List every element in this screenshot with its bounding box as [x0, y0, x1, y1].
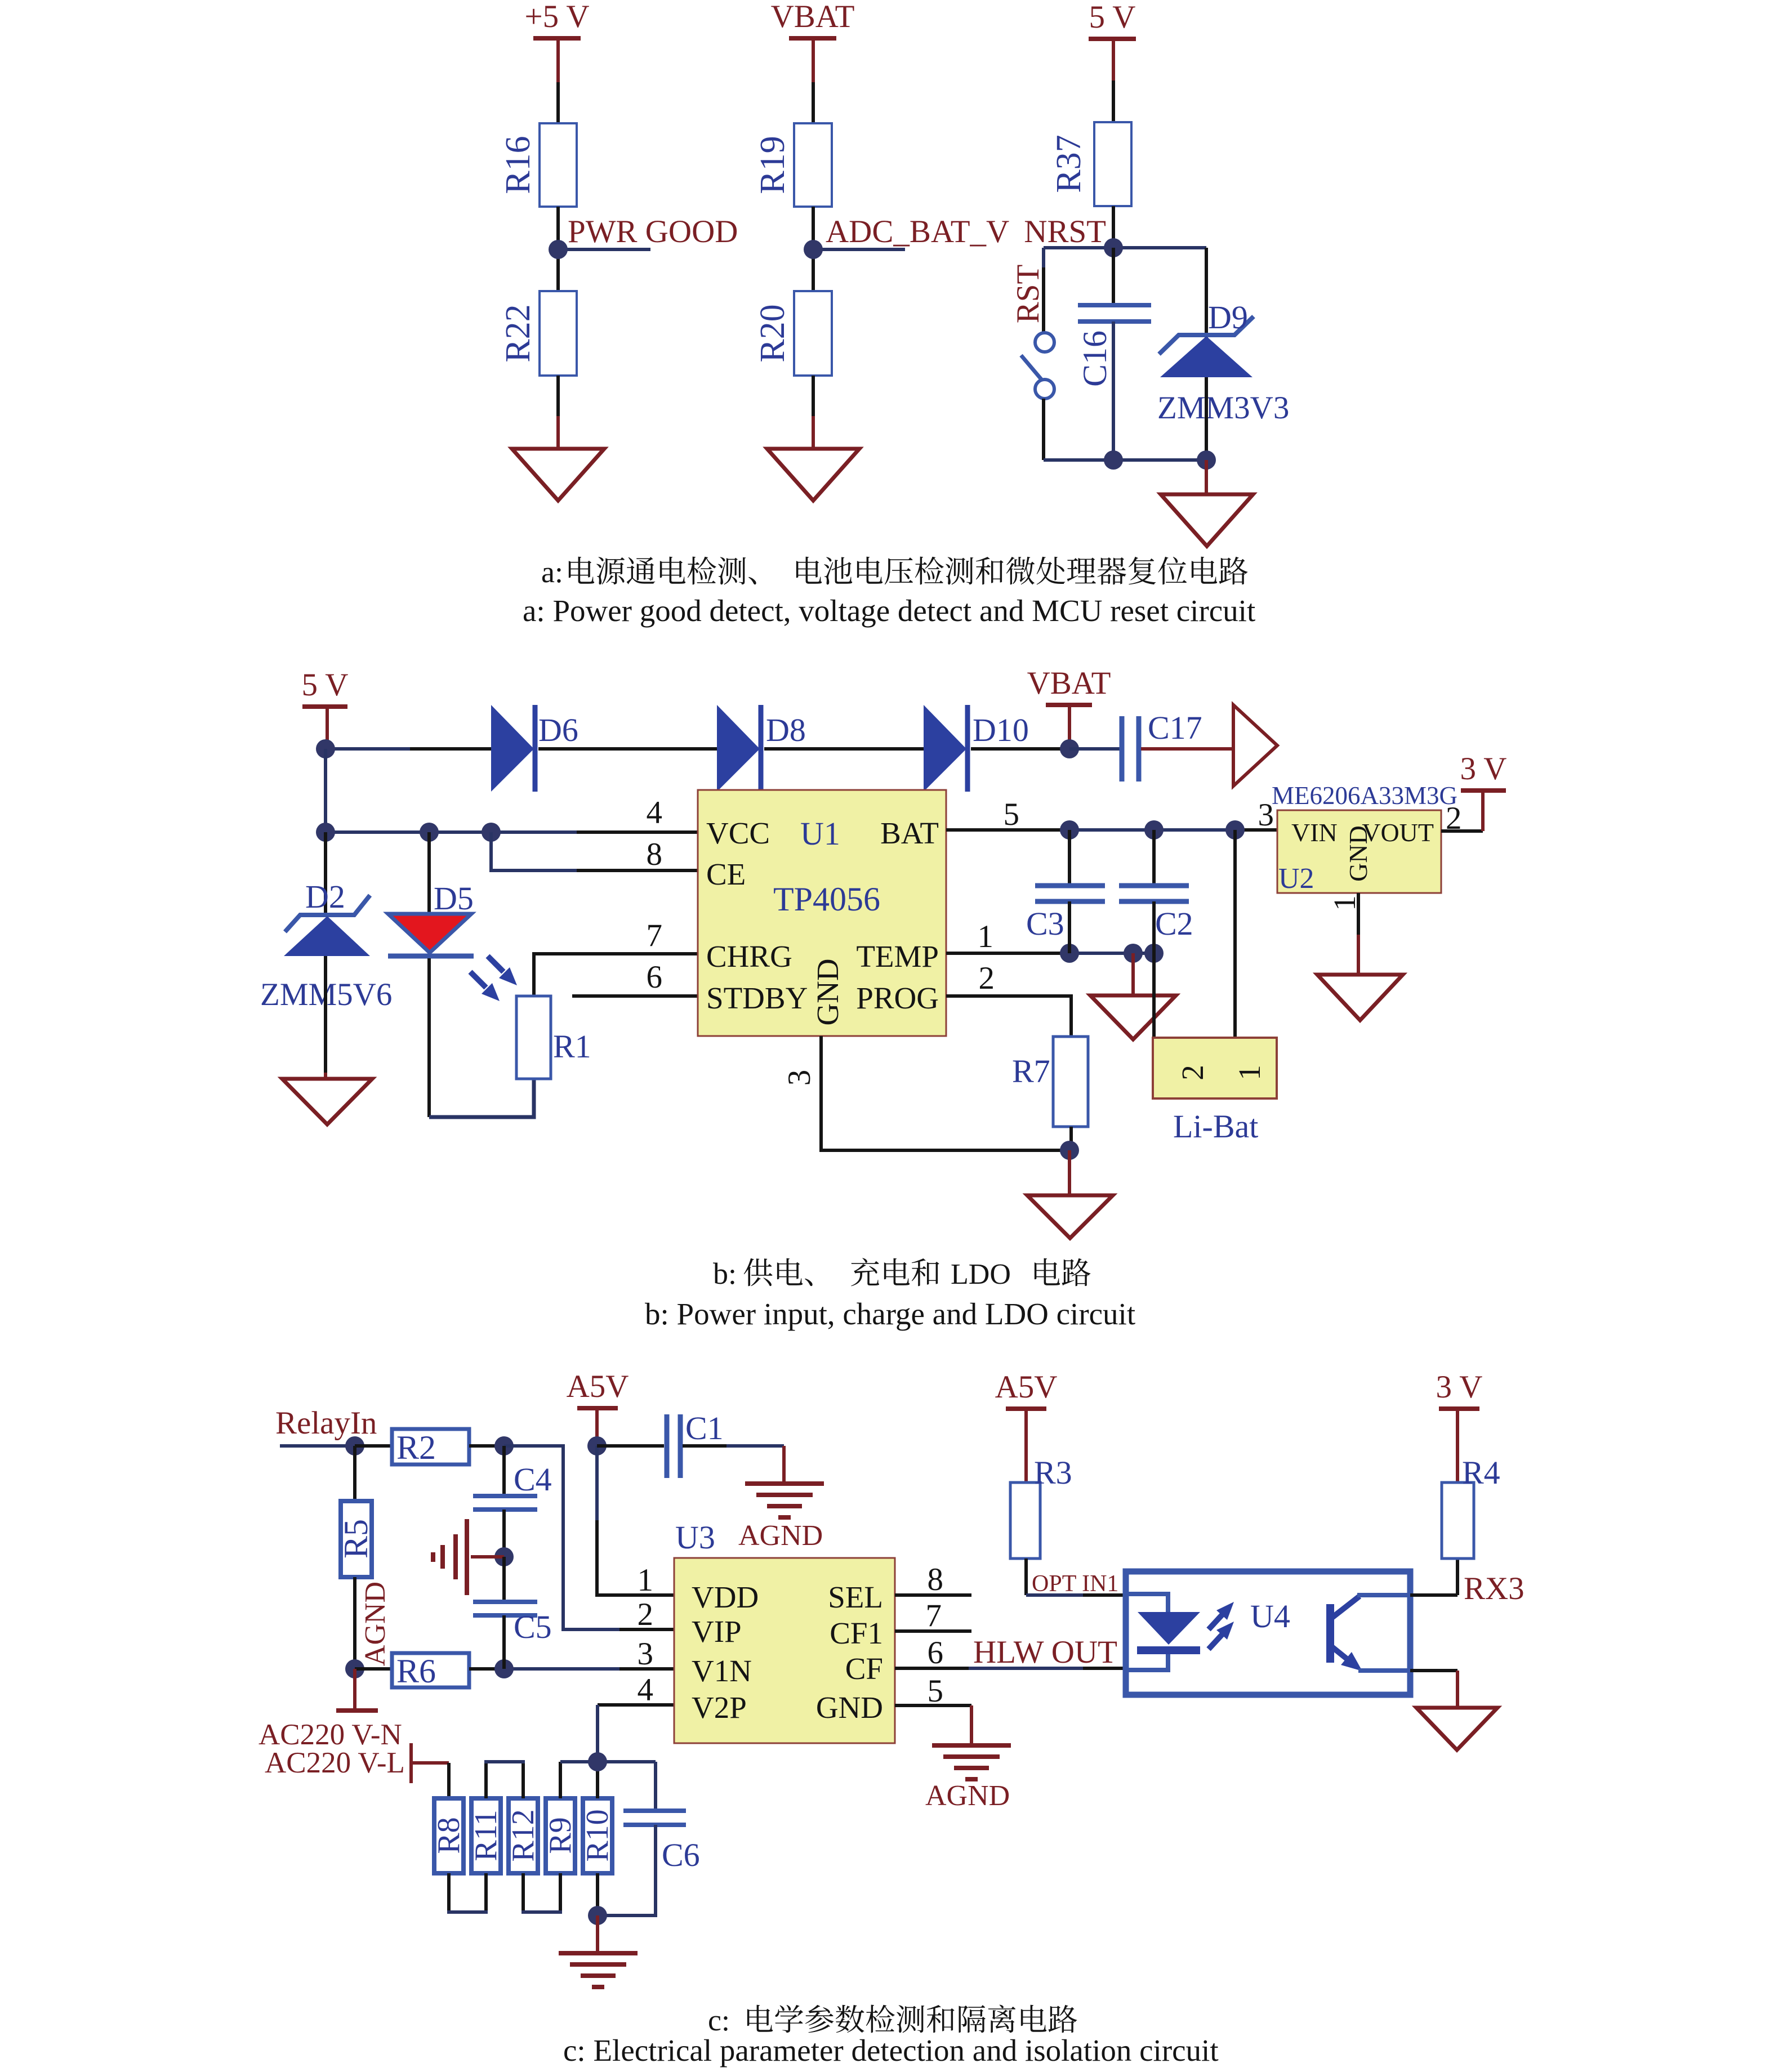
svg-text:CF: CF — [845, 1651, 883, 1686]
U4 LED arrows — [1209, 1615, 1222, 1629]
svg-text:R19: R19 — [754, 136, 792, 194]
svg-text:a: Power good detect, voltage: a: Power good detect, voltage detect and… — [523, 593, 1255, 628]
node junctions — [316, 823, 335, 842]
wire Li-Bat pin2 — [1152, 953, 1156, 1038]
resistor R16 — [540, 123, 577, 207]
wire — [280, 1444, 355, 1448]
svg-text:5: 5 — [928, 1673, 944, 1709]
svg-text:HLW OUT: HLW OUT — [973, 1635, 1117, 1670]
svg-text:OPT IN1: OPT IN1 — [1032, 1571, 1118, 1597]
resistor R4 — [1442, 1482, 1474, 1559]
earth AGND — [932, 1743, 1011, 1748]
node junction — [345, 1436, 364, 1455]
wire V1N — [469, 1667, 504, 1671]
wire — [355, 1444, 392, 1448]
pin 7 stub — [895, 1629, 971, 1633]
svg-text:5 V: 5 V — [1089, 0, 1136, 35]
wire — [324, 956, 327, 1073]
wire / earth bar — [353, 1669, 356, 1711]
capacitor C4 — [502, 1446, 506, 1496]
node junctions — [1060, 944, 1079, 963]
wire Li-Bat pin1 — [1233, 830, 1237, 1038]
svg-text:RST: RST — [1010, 265, 1046, 324]
svg-text:R3: R3 — [1034, 1454, 1072, 1491]
U4 phototransistor — [1326, 1604, 1334, 1663]
capacitor C16 — [1078, 303, 1151, 307]
svg-text:R7: R7 — [1012, 1053, 1050, 1089]
node junctions — [1060, 820, 1079, 839]
svg-text:C1: C1 — [685, 1410, 724, 1446]
node junction — [494, 1547, 514, 1566]
wire bottom rail — [1044, 458, 1206, 462]
wire GND pin3 — [821, 1036, 1069, 1150]
wire stub — [813, 248, 905, 251]
wire CHRG — [534, 954, 577, 996]
svg-text:GND: GND — [816, 1690, 883, 1725]
resistor R19 — [794, 123, 832, 207]
resistor R3 — [1010, 1482, 1040, 1559]
resistor R6 — [355, 1667, 392, 1671]
svg-text:2: 2 — [1175, 1065, 1210, 1080]
U4 LED — [1126, 1594, 1168, 1612]
wire VDD elbow — [595, 1446, 599, 1520]
svg-text:R1: R1 — [553, 1028, 591, 1065]
wire to VIP — [504, 1446, 619, 1629]
wire — [812, 38, 815, 82]
wire — [1112, 321, 1115, 460]
wire — [324, 749, 327, 832]
diode D6 — [491, 705, 534, 792]
wire V2P elbow — [598, 1703, 674, 1707]
svg-text:C3: C3 — [1026, 905, 1064, 942]
node junction — [549, 240, 568, 259]
ground — [767, 449, 859, 501]
svg-text:1: 1 — [1232, 1065, 1267, 1080]
node junction — [494, 1436, 514, 1455]
wire rail 2 (VCC) — [326, 830, 577, 834]
svg-text:TP4056: TP4056 — [773, 881, 880, 918]
svg-text:AGND: AGND — [738, 1520, 823, 1552]
resistor R5 — [341, 1501, 372, 1577]
svg-text:C6: C6 — [662, 1837, 700, 1873]
capacitor C17 — [1120, 716, 1125, 782]
svg-text:4: 4 — [647, 795, 663, 830]
diode D10 — [924, 705, 966, 792]
svg-text:VOUT: VOUT — [1362, 818, 1434, 847]
svg-text:V2P: V2P — [692, 1690, 747, 1725]
svg-text:A5V: A5V — [567, 1369, 629, 1404]
earth AGND — [745, 1481, 824, 1486]
svg-text:C16: C16 — [1076, 331, 1113, 387]
svg-text:Li-Bat: Li-Bat — [1173, 1108, 1258, 1145]
wire bridges top — [484, 1762, 488, 1798]
svg-text:VDD: VDD — [692, 1580, 759, 1614]
wire — [427, 958, 431, 1117]
svg-text:c:: c: — [708, 2003, 730, 2037]
wire — [469, 1444, 504, 1448]
connector Li-Bat — [1153, 1038, 1277, 1098]
connector arrow — [1233, 705, 1277, 786]
resistor R20 — [794, 291, 832, 376]
svg-text:3: 3 — [638, 1636, 654, 1672]
svg-text:PROG: PROG — [856, 981, 939, 1015]
zener diode D9 ZMM3V3 — [1159, 316, 1254, 354]
wire — [1069, 747, 1120, 751]
node junction — [587, 1436, 607, 1455]
pin 8 stub — [895, 1593, 971, 1597]
wire — [1069, 1127, 1073, 1150]
svg-text:3 V: 3 V — [1436, 1369, 1483, 1405]
capacitor C2 — [1152, 830, 1156, 886]
wire GND pin1 — [1357, 893, 1360, 935]
wire — [409, 1743, 413, 1783]
svg-text:5: 5 — [1004, 797, 1020, 832]
svg-text:6: 6 — [928, 1635, 944, 1671]
wire OPT IN1 — [1024, 1559, 1028, 1595]
svg-text:7: 7 — [926, 1598, 942, 1633]
wire stub — [558, 248, 650, 251]
ground — [282, 1079, 372, 1124]
svg-text:R6: R6 — [396, 1653, 436, 1690]
svg-text:D2: D2 — [305, 878, 345, 915]
wire — [326, 707, 329, 748]
ground — [1317, 975, 1403, 1020]
node junction — [494, 1659, 514, 1678]
wire bridges bottom — [447, 1873, 451, 1912]
wire — [597, 1444, 664, 1448]
ground — [1027, 1195, 1113, 1238]
svg-text:VBAT: VBAT — [771, 0, 855, 34]
svg-text:R8: R8 — [431, 1817, 466, 1854]
wire — [427, 832, 431, 914]
node junction — [588, 1906, 607, 1925]
earth AGND — [559, 1951, 638, 1955]
svg-text:D5: D5 — [434, 880, 474, 917]
resistor R7 — [1053, 1037, 1088, 1127]
svg-text:R5: R5 — [337, 1519, 375, 1559]
svg-text:R16: R16 — [499, 136, 537, 194]
svg-text:RelayIn: RelayIn — [275, 1405, 377, 1441]
svg-text:3: 3 — [1258, 797, 1274, 833]
svg-text:U1: U1 — [800, 815, 840, 852]
diode D8 — [717, 705, 760, 792]
IC U1 TP4056 — [698, 790, 946, 1036]
wire — [1205, 377, 1208, 460]
capacitor C1 — [665, 1414, 670, 1478]
svg-text:AGND: AGND — [925, 1780, 1010, 1812]
wire — [971, 747, 1069, 751]
wire — [353, 1446, 356, 1501]
svg-text:U4: U4 — [1250, 1598, 1290, 1635]
svg-text:1: 1 — [1327, 895, 1362, 911]
node junction NRST — [1104, 238, 1123, 257]
zener diode D2 ZMM5V6 — [285, 895, 370, 932]
svg-text:R37: R37 — [1050, 135, 1088, 193]
svg-text:6: 6 — [647, 959, 663, 995]
svg-text:+5 V: +5 V — [524, 0, 589, 34]
node junction VBAT — [1060, 739, 1079, 758]
svg-text:3: 3 — [782, 1070, 817, 1086]
LED D5 — [388, 914, 471, 953]
wire VOUT pin2 — [1441, 829, 1483, 833]
svg-text:VIP: VIP — [692, 1614, 742, 1649]
wire emitter — [1410, 1669, 1457, 1672]
wire — [556, 38, 560, 82]
svg-text:2: 2 — [979, 961, 995, 996]
ground — [512, 449, 604, 501]
wire — [764, 747, 924, 751]
svg-text:VIN: VIN — [1291, 818, 1338, 847]
svg-text:ZMM3V3: ZMM3V3 — [1157, 390, 1289, 426]
wire CE elbow — [491, 832, 577, 870]
capacitor C3 — [1068, 830, 1071, 886]
svg-text:U3: U3 — [675, 1519, 715, 1556]
node junction — [1060, 1141, 1079, 1160]
svg-text:2: 2 — [638, 1597, 654, 1632]
svg-text:C5: C5 — [514, 1609, 552, 1645]
svg-text:C2: C2 — [1155, 905, 1193, 942]
svg-text:RX3: RX3 — [1464, 1571, 1525, 1606]
node junction — [804, 240, 823, 259]
svg-text:R22: R22 — [499, 304, 537, 362]
node junction — [316, 739, 335, 758]
wire collector / RX3 — [1410, 1593, 1457, 1597]
ground — [1161, 494, 1253, 546]
wire loop to R1 — [429, 1079, 534, 1117]
pin 6 CF / HLW OUT — [895, 1667, 969, 1670]
svg-text:ME6206A33M3G: ME6206A33M3G — [1272, 782, 1457, 810]
svg-text:BAT: BAT — [880, 816, 939, 850]
svg-text:ADC_BAT_V: ADC_BAT_V — [826, 214, 1009, 249]
svg-text:CF1: CF1 — [830, 1616, 883, 1650]
svg-text:8: 8 — [928, 1562, 944, 1597]
svg-text:D6: D6 — [538, 712, 578, 748]
svg-text:4: 4 — [638, 1672, 654, 1708]
svg-text:CE: CE — [706, 857, 746, 891]
resistor bank R8 R11 R12 R9 R10 — [447, 1763, 451, 1798]
wire — [1112, 248, 1115, 305]
svg-text:VCC: VCC — [706, 816, 770, 850]
svg-text:R12: R12 — [506, 1809, 541, 1861]
wire BAT pin5 — [946, 828, 1069, 832]
svg-text:a:: a: — [541, 555, 563, 589]
svg-text:7: 7 — [647, 918, 663, 953]
svg-text:TEMP: TEMP — [856, 939, 939, 974]
wire — [1042, 248, 1045, 267]
optocoupler U4 box — [1126, 1571, 1410, 1695]
svg-text:8: 8 — [647, 837, 663, 872]
wire — [324, 832, 327, 916]
svg-text:b:: b: — [713, 1257, 737, 1290]
wire — [556, 207, 560, 291]
svg-text:NRST: NRST — [1024, 214, 1106, 249]
svg-text:LDO: LDO — [951, 1258, 1011, 1290]
wire — [683, 1444, 726, 1448]
wire TEMP pin1 — [946, 952, 1069, 955]
svg-text:2: 2 — [1446, 801, 1462, 836]
svg-text:VBAT: VBAT — [1027, 666, 1111, 701]
svg-text:AC220 V-L: AC220 V-L — [265, 1747, 405, 1779]
svg-text:STDBY: STDBY — [706, 981, 808, 1015]
wire — [556, 376, 560, 416]
wire — [1068, 1150, 1071, 1195]
svg-text:5 V: 5 V — [302, 667, 349, 703]
resistor R22 — [540, 291, 577, 376]
svg-text:D8: D8 — [766, 712, 806, 748]
svg-text:C17: C17 — [1148, 709, 1202, 746]
wire — [1112, 39, 1115, 81]
resistor R2 — [392, 1429, 469, 1464]
wire — [1205, 460, 1208, 494]
svg-text:c: Electrical parameter detect: c: Electrical parameter detection and is… — [563, 2033, 1219, 2067]
wire PROG pin2 elbow — [946, 996, 1071, 1037]
resistor R1 — [516, 996, 551, 1079]
wire — [1112, 206, 1115, 248]
svg-text:CHRG: CHRG — [706, 939, 792, 974]
wire — [1042, 399, 1045, 460]
svg-text:U2: U2 — [1278, 863, 1314, 895]
svg-text:GND: GND — [1344, 825, 1372, 882]
capacitor C5 — [502, 1557, 506, 1602]
svg-text:V1N: V1N — [692, 1654, 752, 1688]
node junction — [1104, 450, 1123, 470]
resistor R37 — [1094, 122, 1131, 206]
ground — [1416, 1708, 1497, 1750]
wire — [812, 376, 815, 416]
wire STDBY stub — [572, 994, 698, 998]
svg-text:R4: R4 — [1462, 1454, 1500, 1491]
svg-text:AGND: AGND — [359, 1582, 391, 1666]
node junction — [345, 1659, 364, 1678]
svg-text:A5V: A5V — [995, 1369, 1058, 1405]
wire — [1205, 248, 1208, 341]
svg-text:GND: GND — [810, 958, 845, 1025]
node junction — [588, 1752, 607, 1771]
wire — [812, 207, 815, 291]
svg-text:b: Power input, charge and LDO: b: Power input, charge and LDO circuit — [645, 1297, 1135, 1331]
capacitor C6 — [654, 1762, 657, 1811]
svg-text:R9: R9 — [543, 1817, 578, 1854]
svg-text:R10: R10 — [580, 1809, 615, 1861]
svg-text:SEL: SEL — [828, 1580, 883, 1614]
svg-text:3 V: 3 V — [1460, 751, 1507, 787]
earth (left pointing) — [471, 1555, 504, 1559]
svg-text:D9: D9 — [1208, 299, 1248, 336]
svg-text:R2: R2 — [396, 1429, 436, 1466]
wire top rail — [326, 747, 410, 751]
wire — [353, 1577, 356, 1669]
wire — [1044, 246, 1206, 249]
wire — [538, 747, 717, 751]
svg-text:R11: R11 — [469, 1810, 503, 1861]
pin 5 GND — [895, 1704, 971, 1707]
svg-text:PWR GOOD: PWR GOOD — [568, 214, 738, 249]
wire — [596, 1915, 599, 1953]
svg-text:1: 1 — [638, 1562, 654, 1598]
svg-text:1: 1 — [978, 919, 994, 954]
svg-text:R20: R20 — [754, 304, 792, 362]
wire / ground stub — [1131, 953, 1135, 995]
wire — [1141, 747, 1233, 751]
svg-text:C4: C4 — [514, 1461, 552, 1498]
LED arrows — [488, 956, 503, 972]
svg-text:D10: D10 — [973, 712, 1029, 748]
